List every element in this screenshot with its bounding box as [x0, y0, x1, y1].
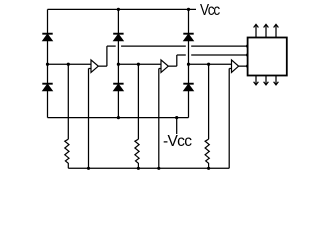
node converter pin 3	[246, 65, 249, 68]
node bottom rail resistor R3 junction	[207, 167, 210, 170]
resistor R3	[205, 139, 209, 168]
output arrow up 1	[255, 25, 257, 38]
diode D3a	[184, 34, 194, 41]
wire Vcc top rail	[48, 8, 197, 10]
wire resistor drop 2	[137, 64, 139, 139]
diode D2a	[114, 34, 124, 41]
op-amp U3	[232, 60, 239, 73]
node bus 3 resistor tap	[207, 63, 210, 66]
wire bottom common rail	[68, 167, 229, 169]
wire resistor drop 1	[67, 64, 69, 139]
resistor R1	[65, 139, 69, 168]
wire input bus 2	[118, 63, 161, 65]
node converter pin 2	[246, 53, 249, 56]
output arrow up 3	[275, 25, 277, 38]
node Vcc junction column 2	[117, 8, 120, 11]
wire -Vcc rail	[48, 117, 189, 119]
wire column 1 top segment	[47, 9, 49, 33]
diode D2b cathode bar	[113, 83, 123, 85]
wire op-amp U1 inverting input	[88, 69, 90, 169]
node converter pin 1	[246, 45, 249, 48]
output arrow down 1	[255, 76, 257, 85]
wire column 2 top segment	[117, 9, 119, 33]
wire input bus 1	[48, 63, 92, 65]
node bus junction column 3	[187, 63, 190, 66]
diode D1b	[43, 84, 53, 91]
wire op-amp U3 output	[239, 65, 248, 67]
wire op-amp U2 output	[168, 65, 177, 67]
op-amp U2	[161, 60, 168, 73]
diode D1b cathode bar	[42, 83, 52, 85]
op-amp U1	[91, 60, 98, 73]
wire column 2 bottom segment	[117, 91, 119, 118]
wire U1 output rail to converter	[107, 45, 116, 47]
node -Vcc rail column 2 junction	[117, 116, 120, 119]
wire U2 output rail to converter	[177, 54, 186, 56]
net label -Vcc	[163, 134, 191, 150]
wire column 3 middle segment	[188, 41, 190, 84]
wire op-amp U2 inverting input	[158, 69, 160, 169]
node bottom rail wire junction 1	[87, 167, 90, 170]
net label Vcc	[200, 3, 219, 19]
node bus junction column 1	[46, 63, 49, 66]
diode D3b cathode bar	[183, 83, 193, 85]
diode D1a	[43, 34, 53, 41]
wire input bus 3	[189, 63, 232, 65]
node Vcc junction column 3	[187, 8, 190, 11]
diode D3a cathode bar	[183, 33, 193, 35]
wire column 1 bottom segment	[47, 91, 49, 118]
wire op-amp U3 inverting input	[228, 69, 230, 169]
node bus junction column 2	[117, 63, 120, 66]
diode D2a cathode bar	[113, 33, 123, 35]
wire op-amp U1 output	[98, 65, 107, 67]
output arrow up 2	[265, 25, 267, 38]
node -Vcc label tap	[175, 116, 178, 119]
output arrow down 2	[265, 76, 267, 85]
wire resistor drop 3	[208, 64, 210, 139]
resistor R2	[135, 139, 139, 168]
diode D2b	[114, 84, 124, 91]
node bus 1 resistor tap	[67, 63, 70, 66]
node bus 2 resistor tap	[137, 63, 140, 66]
node bottom rail resistor R2 junction	[137, 167, 140, 170]
diode D1a cathode bar	[42, 33, 52, 35]
node bottom rail wire junction 2	[157, 167, 160, 170]
wire column 3 bottom segment	[188, 91, 190, 118]
diode D3b	[184, 84, 194, 91]
wire -Vcc label stub	[176, 118, 178, 134]
converter block U4	[248, 38, 287, 76]
wire column 3 top segment	[188, 9, 190, 33]
output arrow down 3	[275, 76, 277, 85]
wire column 1 middle segment	[47, 41, 49, 84]
wire column 2 middle segment	[117, 41, 119, 84]
